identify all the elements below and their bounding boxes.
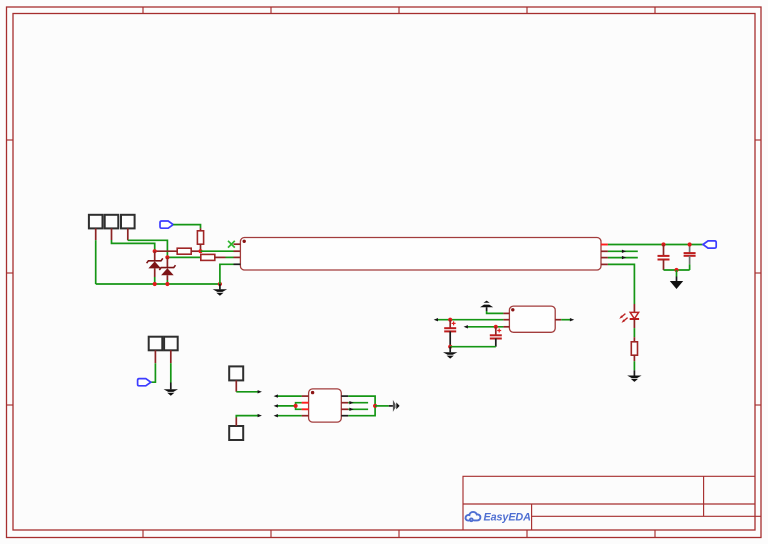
pin 2 stub of U3 (bright) <box>302 402 309 404</box>
junction U3 pins 2-3 <box>294 404 298 408</box>
wire U1 pin D to LED <box>608 264 635 304</box>
junction C1 top <box>661 242 665 246</box>
pin 3 stub of U3 (bright) <box>302 408 309 410</box>
lead of R3 bottom <box>200 244 202 251</box>
wire to GND2 <box>676 270 678 277</box>
wire P5 to GND6 <box>170 363 172 382</box>
pin lead of P6 <box>235 380 237 391</box>
ground lead <box>219 284 221 289</box>
C4 top lead <box>495 327 497 336</box>
zener diode D2 <box>159 257 175 280</box>
junction C3 bottom <box>448 345 452 349</box>
wire LED to R4 <box>633 328 635 337</box>
wire end arrow <box>349 408 353 411</box>
wire U1 pin4 to ground <box>220 264 234 284</box>
wire from P7 <box>236 416 259 418</box>
svg-text:EasyEDA: EasyEDA <box>484 511 532 523</box>
wire power to U2 pin1 <box>487 311 504 313</box>
resistor R3 <box>197 231 203 244</box>
wire U1 pin C stub out <box>608 257 638 259</box>
pin lead of P3 <box>127 228 129 240</box>
pin 2 stub of U2 <box>503 319 509 321</box>
connector pad P3 <box>121 215 135 229</box>
C3 bottom lead <box>449 331 451 346</box>
ground GND3 <box>627 376 641 382</box>
net flag F1 <box>160 221 173 228</box>
wire P1 to ground rail <box>95 240 97 284</box>
net flag F3 <box>138 379 151 386</box>
wire end arrow <box>464 325 468 328</box>
lead of R3 top <box>200 228 202 231</box>
voltage regulator U2 <box>509 306 555 332</box>
ground GND5 (rotated) <box>393 400 400 412</box>
junction C2 top <box>688 242 692 246</box>
junction node D <box>373 404 377 408</box>
wire node D to GND5 <box>375 405 389 407</box>
capacitor C3 <box>444 328 456 331</box>
junction node C <box>198 249 202 253</box>
wire P2 to node A <box>112 240 155 251</box>
junction D1 anode <box>153 282 157 286</box>
GND4 lead <box>449 347 451 353</box>
junction ground node <box>674 268 678 272</box>
junction C4 top <box>494 325 498 329</box>
ground GND2 (arrow style) <box>670 281 683 289</box>
wire from P6 <box>236 391 259 393</box>
wire to U3 pin1 <box>276 395 301 397</box>
LED top lead <box>633 304 635 312</box>
wire P4 to net flag F3 <box>151 363 156 382</box>
ground rail wire <box>96 283 220 285</box>
net flag F2 <box>703 241 716 248</box>
ground GND4 <box>443 352 457 358</box>
connector pad P1 <box>89 215 103 229</box>
wire end arrow <box>274 414 278 417</box>
connector pad P2 <box>105 215 119 229</box>
wire R2 right lead <box>215 256 226 258</box>
R4 top lead <box>633 337 635 342</box>
pin lead of P2 <box>111 228 113 240</box>
connector pad P5 <box>164 337 178 351</box>
wire F1 to R3 <box>173 225 200 229</box>
wire tying U3 pins 2-3 <box>296 403 302 410</box>
wire U3 pin6 out <box>348 408 368 410</box>
capacitor C2 <box>684 253 696 256</box>
ground GND1 <box>213 289 227 295</box>
pin 1 stub of U1 (no connect) <box>234 243 241 245</box>
wire D2 to ground rail <box>166 280 168 284</box>
pin 6 stub of U3 <box>341 408 348 410</box>
pin stub U1 right pin B <box>601 250 608 252</box>
wire end arrow <box>349 401 353 404</box>
LED bottom lead <box>633 319 635 328</box>
wire U3 pin7 out <box>348 402 368 404</box>
pin 4 stub of U1 <box>234 263 241 265</box>
pin lead of P1 <box>95 228 97 240</box>
pin 7 stub of U3 <box>341 402 348 404</box>
power flag (up arrow) <box>480 301 493 308</box>
C1 bottom lead <box>663 260 665 271</box>
wire end arrow <box>258 414 262 417</box>
wire to U3 pins 2-3 <box>276 405 295 407</box>
zener diode D1 <box>147 251 163 277</box>
GND2 lead <box>676 277 678 282</box>
wire node A to R1 <box>155 250 178 252</box>
resistor R1 <box>177 248 191 254</box>
pin stub U1 right pin D <box>601 263 608 265</box>
wire node B to R2 <box>167 256 200 258</box>
wire end arrow <box>434 318 438 321</box>
wire end arrow <box>622 256 626 259</box>
capacitor C1 <box>658 256 670 260</box>
pin lead of P7 <box>235 418 237 427</box>
wire end arrow <box>258 390 262 393</box>
wire C3-C4 bottom <box>450 346 496 348</box>
junction D2 anode <box>165 282 169 286</box>
connector pad P6 <box>229 366 243 380</box>
power flag lead <box>486 307 488 311</box>
R4 bottom lead <box>633 355 635 361</box>
wire to U3 pin4 <box>276 415 301 417</box>
capacitor C4 <box>490 335 502 338</box>
pin 8 stub of U3 <box>341 395 348 397</box>
wire P3 to node B <box>128 240 168 257</box>
junction node A <box>153 249 157 253</box>
wire end arrow <box>274 404 278 407</box>
resistor R2 <box>201 254 215 260</box>
junction C3 top <box>448 318 452 322</box>
C3 top lead <box>449 320 451 329</box>
C2 bottom lead <box>689 256 691 264</box>
pin lead of P4 <box>154 350 156 363</box>
C4 bottom lead <box>495 339 497 347</box>
pin stub U1 right pin C <box>601 257 608 259</box>
ground GND6 <box>164 389 178 395</box>
pin 1 stub of U3 <box>302 395 309 397</box>
junction at GND1 <box>218 282 222 286</box>
connector pad P7 <box>229 426 243 440</box>
C2 top lead <box>689 247 691 254</box>
GND5 lead <box>389 405 393 407</box>
pin stub U1 right pin A (bright) <box>601 244 608 246</box>
wire U2 output <box>561 319 571 321</box>
pin 2 stub of U1 <box>234 250 241 252</box>
wire end arrow <box>570 318 574 321</box>
pin lead of P5 <box>170 350 172 363</box>
output pin stub of U2 <box>555 319 561 321</box>
wire to U1 pin 3 <box>226 256 234 258</box>
wire R1 to node C <box>191 250 200 252</box>
wire node C to U1 pin 2 <box>201 250 234 252</box>
pin 3 stub of U2 <box>503 326 509 328</box>
wire R4 to GND3 <box>633 361 635 370</box>
C1 top lead <box>663 245 665 256</box>
wire U2 pin3 row <box>467 326 504 328</box>
wire U1 to net flag F2 <box>608 244 703 246</box>
IC U1 <box>240 238 601 271</box>
resistor R4 <box>631 342 637 355</box>
polarity mark C3 <box>452 321 456 325</box>
GND6 lead <box>170 383 172 390</box>
wire end arrow <box>622 250 626 253</box>
pin 4 stub of U3 <box>302 415 309 417</box>
wire U3 pin5 to node D <box>348 406 375 416</box>
GND3 lead <box>633 370 635 375</box>
pin 1 stub of U2 <box>503 312 509 314</box>
IC U3 <box>309 389 342 422</box>
wire C1-C2 bottom <box>664 269 690 271</box>
no-connect flag on U1 pin 1 <box>228 241 235 248</box>
junction node B <box>165 255 169 259</box>
wire U3 pin8 to node D <box>348 396 375 406</box>
wire end arrow <box>274 394 278 397</box>
LED D3 <box>619 312 639 323</box>
wire D1 to ground rail <box>154 277 156 284</box>
wire U1 pin B stub out <box>608 250 638 252</box>
polarity mark C4 <box>497 329 501 333</box>
connector pad P4 <box>149 337 163 351</box>
pin 3 stub of U1 <box>234 256 241 258</box>
pin 5 stub of U3 <box>341 415 348 417</box>
wire U2 pin2 row <box>437 319 504 321</box>
C2 bottom wire <box>689 264 691 270</box>
